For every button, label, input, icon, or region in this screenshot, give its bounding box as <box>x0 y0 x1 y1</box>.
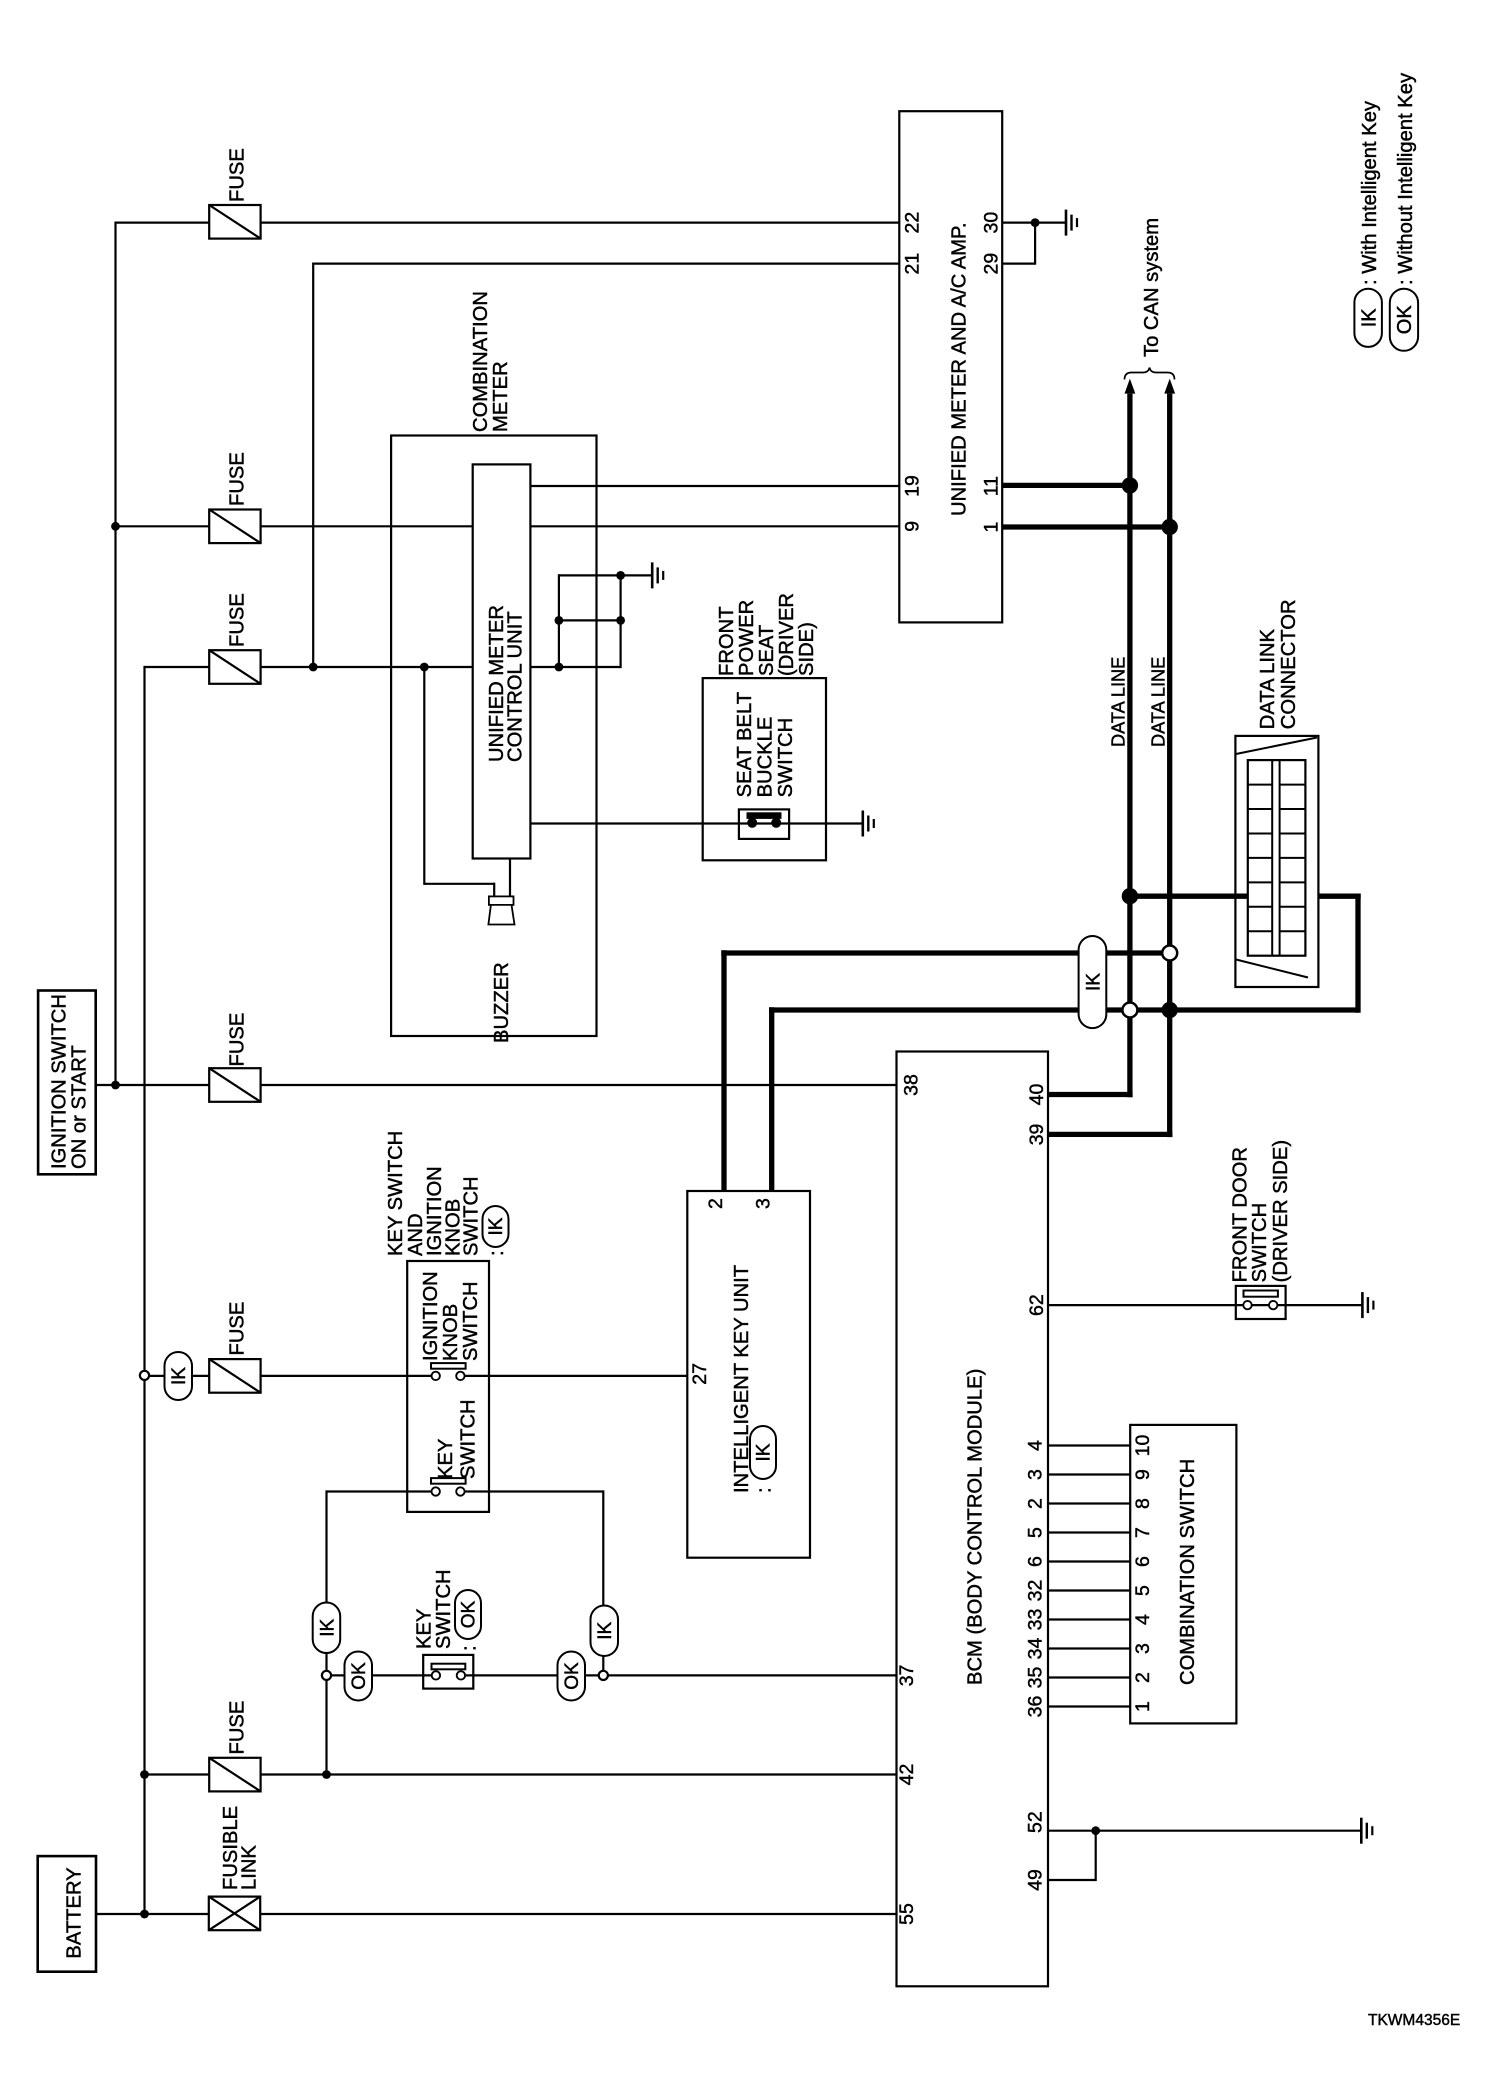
svg-text:SEAT BELT: SEAT BELT <box>734 692 756 797</box>
svg-text:IK: IK <box>486 1217 507 1235</box>
svg-text:FUSE: FUSE <box>227 593 249 647</box>
svg-text:METER: METER <box>490 361 512 432</box>
svg-text:52: 52 <box>1025 1811 1047 1833</box>
svg-text:29: 29 <box>981 253 1003 275</box>
svg-text:SWITCH: SWITCH <box>1249 1203 1271 1283</box>
svg-text:32: 32 <box>1025 1580 1047 1602</box>
svg-text:DATA LINE: DATA LINE <box>1109 657 1129 747</box>
svg-text:38: 38 <box>901 1074 923 1096</box>
svg-text:IK: IK <box>317 1618 338 1636</box>
svg-text:3: 3 <box>1025 1469 1047 1480</box>
svg-text:34: 34 <box>1025 1638 1047 1660</box>
svg-text:POWER: POWER <box>736 600 758 676</box>
svg-text:IK: IK <box>1358 308 1380 328</box>
svg-text:OK: OK <box>562 1662 583 1690</box>
svg-text:BUCKLE: BUCKLE <box>755 717 777 798</box>
svg-text:3: 3 <box>1132 1643 1154 1654</box>
svg-text:10: 10 <box>1132 1435 1154 1457</box>
svg-text:3: 3 <box>753 1198 775 1209</box>
svg-text:IK: IK <box>169 1367 190 1385</box>
svg-text:SWITCH: SWITCH <box>461 1176 483 1256</box>
svg-text:39: 39 <box>1026 1124 1048 1146</box>
svg-text:UNIFIED METER AND A/C AMP.: UNIFIED METER AND A/C AMP. <box>949 222 971 516</box>
svg-text:CONTROL UNIT: CONTROL UNIT <box>505 611 527 762</box>
svg-text:55: 55 <box>896 1903 918 1925</box>
svg-text:COMBINATION SWITCH: COMBINATION SWITCH <box>1177 1459 1199 1685</box>
svg-text:62: 62 <box>1026 1294 1048 1316</box>
svg-text:OK: OK <box>349 1662 370 1690</box>
svg-text:IK: IK <box>754 1443 775 1461</box>
svg-text:LINK: LINK <box>239 1845 261 1890</box>
svg-text:9: 9 <box>902 521 924 532</box>
svg-text:DATA LINK: DATA LINK <box>1257 628 1279 729</box>
svg-text:KEY: KEY <box>435 1438 457 1479</box>
svg-text:35: 35 <box>1025 1667 1047 1689</box>
svg-text:4: 4 <box>1025 1440 1047 1451</box>
svg-text:40: 40 <box>1026 1084 1048 1106</box>
svg-text:5: 5 <box>1132 1585 1154 1596</box>
svg-text:2: 2 <box>705 1198 727 1209</box>
svg-text::: : <box>486 1250 508 1256</box>
svg-text:BUZZER: BUZZER <box>491 962 513 1043</box>
svg-text:19: 19 <box>902 475 924 497</box>
svg-text:22: 22 <box>902 212 924 234</box>
svg-text:IK: IK <box>595 1621 616 1639</box>
svg-text:SWITCH: SWITCH <box>433 1569 455 1649</box>
svg-text:4: 4 <box>1132 1614 1154 1625</box>
svg-text:(DRIVER SIDE): (DRIVER SIDE) <box>1270 1140 1292 1282</box>
svg-text:36: 36 <box>1025 1696 1047 1718</box>
svg-text:SWITCH: SWITCH <box>458 1399 480 1479</box>
svg-text:: With Intelligent Key: : With Intelligent Key <box>1359 100 1381 285</box>
svg-text::: : <box>754 1487 776 1493</box>
svg-text:6: 6 <box>1025 1556 1047 1567</box>
svg-text:SWITCH: SWITCH <box>460 1281 482 1361</box>
svg-text:SIDE): SIDE) <box>796 622 818 676</box>
svg-text:CONNECTOR: CONNECTOR <box>1278 599 1300 729</box>
svg-text::: : <box>459 1645 481 1651</box>
svg-text:IK: IK <box>1083 973 1104 991</box>
svg-text:SWITCH: SWITCH <box>775 718 797 798</box>
svg-text:11: 11 <box>981 476 1003 496</box>
svg-text:30: 30 <box>981 212 1003 234</box>
svg-text:(DRIVER: (DRIVER <box>776 593 798 676</box>
svg-text:: Without Intelligent Key: : Without Intelligent Key <box>1395 72 1417 285</box>
svg-text:KNOB: KNOB <box>440 1304 462 1361</box>
svg-text:1: 1 <box>1132 1701 1154 1712</box>
svg-text:IGNITION: IGNITION <box>420 1271 442 1361</box>
svg-text:OK: OK <box>459 1600 480 1628</box>
svg-text:37: 37 <box>896 1665 918 1687</box>
svg-text:49: 49 <box>1025 1869 1047 1891</box>
svg-text:FUSE: FUSE <box>227 1701 249 1755</box>
svg-text:SEAT: SEAT <box>756 625 778 676</box>
svg-text:2: 2 <box>1132 1672 1154 1683</box>
svg-text:9: 9 <box>1132 1469 1154 1480</box>
svg-text:FRONT: FRONT <box>716 606 738 676</box>
svg-text:2: 2 <box>1025 1498 1047 1509</box>
svg-text:8: 8 <box>1132 1498 1154 1509</box>
svg-text:TKWM4356E: TKWM4356E <box>1368 2012 1460 2029</box>
svg-text:FUSE: FUSE <box>227 1013 249 1067</box>
svg-text:DATA LINE: DATA LINE <box>1149 657 1169 747</box>
svg-text:ON or START: ON or START <box>69 1045 91 1169</box>
svg-text:21: 21 <box>902 253 924 275</box>
svg-text:FUSE: FUSE <box>227 148 249 202</box>
svg-text:BCM (BODY CONTROL MODULE): BCM (BODY CONTROL MODULE) <box>965 1369 987 1685</box>
svg-text:27: 27 <box>689 1363 711 1385</box>
svg-text:BATTERY: BATTERY <box>63 1867 85 1959</box>
svg-text:33: 33 <box>1025 1609 1047 1631</box>
svg-text:IGNITION SWITCH: IGNITION SWITCH <box>49 994 71 1169</box>
svg-text:FUSE: FUSE <box>227 452 249 506</box>
svg-text:1: 1 <box>981 522 1003 533</box>
svg-text:5: 5 <box>1025 1527 1047 1538</box>
svg-text:7: 7 <box>1132 1527 1154 1538</box>
svg-text:COMBINATION: COMBINATION <box>470 291 492 432</box>
svg-text:To CAN system: To CAN system <box>1141 218 1163 357</box>
svg-text:6: 6 <box>1132 1556 1154 1567</box>
svg-text:FUSE: FUSE <box>227 1302 249 1356</box>
svg-text:OK: OK <box>1394 305 1416 335</box>
svg-text:KEY SWITCH: KEY SWITCH <box>385 1131 407 1256</box>
svg-text:42: 42 <box>896 1764 918 1786</box>
